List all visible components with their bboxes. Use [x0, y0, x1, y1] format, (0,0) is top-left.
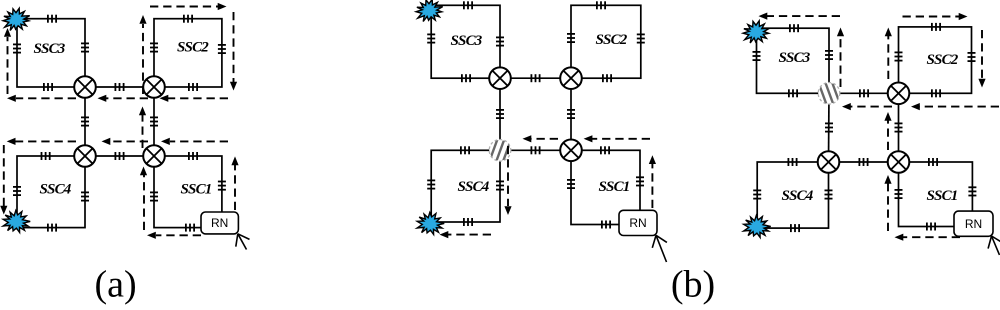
dashed path mid row seg3 (a): [7, 138, 76, 145]
svg-text:SSC2: SSC2: [177, 40, 209, 56]
fiber ticks SSC1 (b2) bottom: [927, 223, 935, 231]
dashed path from RN (a): [147, 232, 201, 239]
failed node OXC3 (b1): [488, 135, 513, 165]
wire node3b1-node4b1: [500, 149, 571, 151]
fiber ticks SSC4 (b1) bottom: [464, 218, 472, 226]
svg-text:SSC4: SSC4: [458, 179, 490, 195]
node OXC4 (a): [143, 145, 165, 167]
wire node2a-node4a: [153, 87, 155, 156]
dashed path to starburst SSC3 (b2): [759, 13, 841, 20]
svg-text:RN: RN: [965, 217, 982, 231]
dashed path top of SSC2 (b2): [903, 13, 968, 20]
fiber ticks link left (b1): [496, 110, 504, 118]
fiber ticks SSC1 (b2) top: [929, 158, 937, 166]
fiber ticks SSC1 (b1) right: [636, 177, 644, 185]
node OXC2 (b2): [888, 83, 910, 105]
wire node1b1-node2b1: [500, 77, 571, 79]
wire node3b2-node4b2: [829, 161, 899, 163]
svg-text:SSC3: SSC3: [34, 41, 66, 57]
fiber ticks SSC4 (b1) left: [427, 180, 435, 188]
fiber ticks SSC1 (b1) left: [567, 180, 575, 188]
dashed path mid vertical lower (a): [140, 167, 147, 231]
fiber ticks SSC1 (a) top: [189, 152, 197, 160]
node OXC3 (a): [74, 145, 96, 167]
dashed path right of SSC1 (a): [231, 156, 238, 210]
fiber ticks SSC3 (b1) right: [496, 37, 504, 45]
dashed path right of SSC3 (b2): [837, 28, 844, 88]
fiber ticks SSC2 (b2) right: [968, 53, 976, 61]
fiber ticks SSC4 (a) top: [42, 152, 50, 160]
node OXC2 (b1): [560, 67, 582, 89]
dashed path under node row seg2 (b2): [842, 103, 892, 110]
svg-text:SSC4: SSC4: [782, 188, 814, 204]
failure starburst SSC3 (b2): [743, 21, 770, 43]
ring SSC4 (b2): [757, 162, 828, 228]
dashed path down to starburst SSC4 (a): [0, 145, 7, 215]
fiber ticks SSC2 (a) left: [150, 43, 158, 51]
dashed path right of SSC2 (b2): [978, 30, 985, 88]
fiber ticks SSC4 (b2) top: [788, 158, 796, 166]
svg-text:RN: RN: [211, 216, 228, 230]
ring SSC3 (b2): [757, 28, 830, 93]
ring SSC2 (b1): [571, 5, 641, 78]
fiber ticks link top (b1): [531, 74, 539, 82]
failure starburst SSC3 (b1): [416, 0, 443, 22]
fiber ticks link bottom (b1): [531, 146, 539, 154]
fiber ticks SSC3 (b2) top: [790, 24, 798, 32]
fiber ticks link top (a): [115, 83, 123, 91]
dashed path under node row seg1 (b2): [911, 103, 999, 110]
fiber ticks link top (b2): [860, 89, 868, 97]
dashed path mid vertical upper (b2): [884, 112, 891, 150]
dashed path mid row seg2 (a): [102, 138, 149, 145]
node OXC4 (b2): [888, 151, 910, 173]
fiber ticks link right (b1): [567, 110, 575, 118]
fiber ticks SSC2 (b2) left: [895, 52, 903, 60]
node OXC2 (a): [143, 76, 165, 98]
fiber ticks SSC3 (b1) bottom: [462, 74, 470, 82]
fiber ticks SSC3 (a) bottom: [44, 83, 52, 91]
RN box (b1): [619, 210, 657, 235]
failed node OXC1 (b2): [817, 78, 842, 108]
dashed path left of SSC2 (b2): [885, 28, 892, 80]
fiber ticks SSC4 (b2) left: [753, 190, 761, 198]
node OXC4 (b1): [560, 140, 582, 162]
dashed path under node row seg1 (a): [160, 95, 229, 102]
fiber ticks SSC2 (b1) bottom: [603, 74, 611, 82]
dashed path to starburst SSC4 (b1): [440, 231, 492, 238]
ring SSC4 (a): [17, 156, 85, 228]
dashed path under node row seg2 (a): [98, 95, 149, 102]
ring SSC1 (b1): [571, 150, 640, 224]
wire node1a-node2a: [85, 86, 154, 88]
wire node2b1-node4b1: [570, 78, 572, 150]
fiber ticks link right (b2): [895, 123, 903, 131]
fiber ticks SSC3 (b1) top: [464, 1, 472, 9]
fiber ticks link right (a): [150, 117, 158, 125]
failure starburst SSC3 (a): [3, 8, 30, 30]
wire node1b2-node2b2: [829, 92, 899, 94]
fiber ticks link left (b2): [825, 123, 833, 131]
dashed path mid vertical upper (a): [139, 107, 146, 149]
dashed path under node row seg3 (a): [7, 95, 76, 102]
fiber ticks SSC3 (a) left: [13, 44, 21, 52]
node OXC3 (b2): [818, 151, 840, 173]
wire node1a-node3a: [84, 87, 86, 156]
ring SSC4 (b1): [431, 150, 500, 222]
svg-text:RN: RN: [629, 216, 646, 230]
fiber ticks SSC4 (a) left: [13, 187, 21, 195]
fiber ticks SSC3 (b1) left: [427, 34, 435, 42]
fiber ticks link bottom (a): [115, 152, 123, 160]
svg-text:SSC1: SSC1: [181, 182, 212, 198]
ring SSC1 (b2): [899, 162, 973, 227]
svg-text:SSC3: SSC3: [451, 33, 483, 49]
wire node1b1-node3b1: [499, 78, 501, 150]
fiber ticks SSC3 (a) right: [81, 43, 89, 51]
svg-text:SSC1: SSC1: [599, 179, 630, 195]
failure starburst SSC4 (b2): [744, 216, 771, 238]
ring SSC2 (b2): [899, 27, 972, 93]
wire node2b2-node4b2: [898, 93, 900, 162]
ring SSC1 (a): [154, 156, 222, 228]
dashed path left of SSC2 (a): [139, 15, 146, 94]
fiber ticks SSC1 (a) left: [150, 192, 158, 200]
fiber ticks SSC4 (b1) top: [461, 146, 469, 154]
dashed path above SSC1 seg2 (b1): [523, 135, 559, 142]
fiber ticks SSC3 (b2) right: [825, 51, 833, 59]
ring SSC2 (a): [154, 19, 222, 87]
fiber ticks SSC4 (b2) bottom: [791, 224, 799, 232]
svg-text:(a): (a): [95, 264, 137, 306]
RN box (b2): [954, 211, 993, 236]
fiber ticks SSC3 (b2) bottom: [789, 89, 797, 97]
fiber ticks SSC2 (b1) right: [637, 34, 645, 42]
RN box (a) input arrow: [236, 234, 250, 250]
dashed path top of SSC2 (a): [150, 3, 227, 10]
dashed path mid row seg1 (a): [161, 138, 228, 145]
fiber ticks SSC2 (a) top: [184, 15, 192, 23]
failure starburst SSC4 (b1): [417, 213, 444, 235]
RN box (b2) input arrow: [988, 236, 1000, 255]
fiber ticks SSC4 (a) bottom: [48, 224, 56, 232]
node OXC1 (a): [74, 76, 96, 98]
svg-text:SSC1: SSC1: [927, 188, 958, 204]
dashed path up to starburst SSC3 (a): [4, 28, 11, 94]
svg-text:(b): (b): [671, 264, 715, 306]
RN box (a): [201, 212, 238, 234]
RN box (b1) input arrow: [652, 235, 667, 262]
failure starburst SSC4 (a): [3, 211, 30, 233]
svg-text:SSC3: SSC3: [779, 50, 811, 66]
fiber ticks SSC1 (b2) left: [895, 190, 903, 198]
fiber ticks SSC3 (b2) left: [753, 52, 761, 60]
node OXC1 (b1): [489, 67, 511, 89]
fiber ticks link left (a): [81, 117, 89, 125]
fiber ticks SSC2 (a) bottom: [189, 83, 197, 91]
fiber ticks SSC2 (b1) left: [567, 34, 575, 42]
fiber ticks SSC3 (a) top: [48, 15, 56, 23]
fiber ticks SSC2 (a) right: [218, 45, 226, 53]
fiber ticks SSC2 (b2) bottom: [932, 89, 940, 97]
dashed path mid vertical lower (b2): [884, 175, 891, 231]
fiber ticks SSC1 (b2) right: [968, 187, 976, 195]
fiber ticks SSC4 (b1) right: [496, 181, 504, 189]
dashed path above SSC1 seg1 (b1): [584, 135, 650, 142]
fiber ticks SSC4 (b2) right: [825, 190, 833, 198]
dashed path from RN (b2): [895, 234, 961, 241]
dashed path right of SSC2 (a): [230, 12, 237, 91]
svg-text:SSC4: SSC4: [40, 182, 72, 198]
dashed path right of RN (b1): [649, 155, 656, 208]
svg-text:SSC2: SSC2: [596, 32, 628, 48]
fiber ticks link bottom (b2): [859, 158, 867, 166]
svg-text:SSC2: SSC2: [927, 52, 959, 68]
wire node1b2-node3b2: [828, 93, 831, 162]
fiber ticks SSC1 (b1) top: [601, 146, 609, 154]
fiber ticks SSC2 (b1) top: [597, 1, 605, 9]
dashed path right of SSC4 (b1): [504, 146, 511, 215]
fiber ticks SSC1 (b1) bottom: [602, 221, 610, 229]
fiber ticks SSC4 (a) right: [81, 192, 89, 200]
fiber ticks SSC2 (b2) top: [932, 23, 940, 31]
ring SSC3 (a): [17, 19, 85, 87]
wire node3a-node4a: [85, 155, 154, 157]
fiber ticks SSC1 (a) bottom: [186, 224, 194, 232]
ring SSC3 (b1): [431, 5, 500, 78]
fiber ticks SSC1 (a) right: [218, 182, 226, 190]
